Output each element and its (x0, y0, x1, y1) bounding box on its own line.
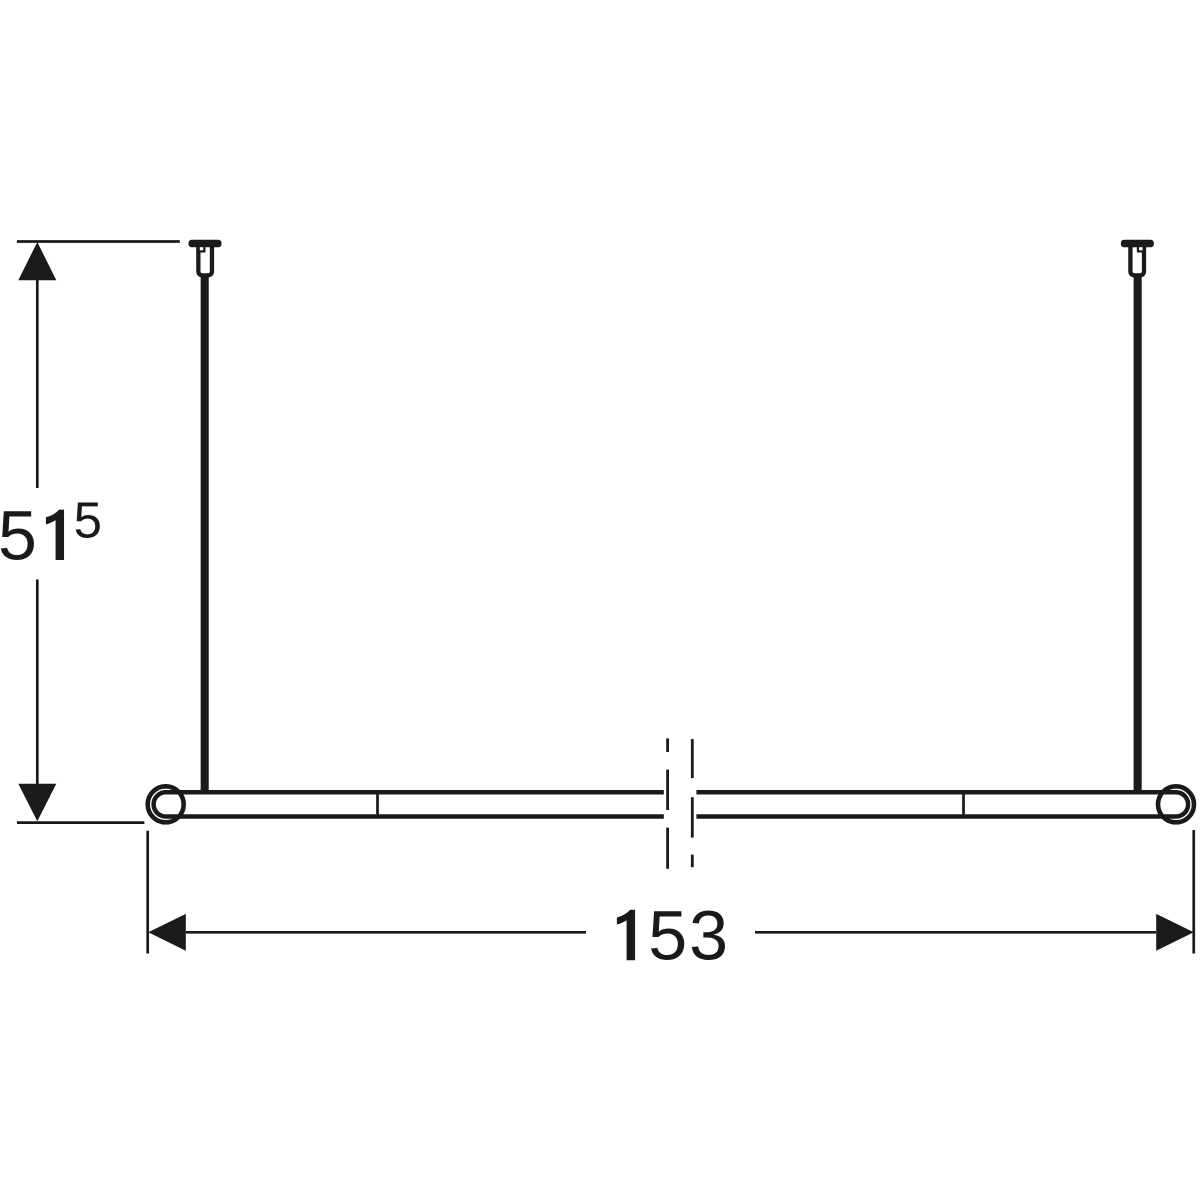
rail tube (154, 792, 1189, 816)
left ceiling mount (189, 240, 222, 793)
svg-text:5: 5 (648, 897, 687, 975)
svg-text:5: 5 (74, 492, 102, 549)
left mount bracket (198, 245, 212, 275)
dimension arrow up (51.5 top) (18, 242, 56, 280)
svg-text:3: 3 (689, 897, 728, 975)
left mount rod (201, 275, 209, 793)
break line right (691, 739, 694, 867)
right extension line (153) (1192, 830, 1195, 954)
rail bottom extension line (17, 821, 144, 824)
left mount clip detail (199, 247, 206, 253)
dimension line lower segment (36, 580, 39, 786)
ceiling reference line (17, 240, 180, 243)
break line left (666, 738, 669, 868)
rail break gap (664, 786, 697, 822)
dimension arrow right (153) (1156, 914, 1194, 951)
rail right end cap (1158, 786, 1194, 822)
label 153 digit 1 (617, 910, 635, 960)
label 51 digit 1 (46, 510, 64, 560)
dimension line 153 right part (755, 931, 1156, 934)
dimension arrow down (51.5 bottom) (18, 784, 56, 822)
svg-text:5: 5 (0, 497, 37, 575)
rail left end cap (148, 786, 184, 822)
right mount rod (1134, 275, 1142, 793)
dimension arrow left (153) (148, 914, 186, 951)
dimension line 153 left part (186, 931, 586, 934)
right ceiling mount (1121, 240, 1154, 793)
left extension line (153) (146, 831, 149, 954)
left mount plate (189, 240, 222, 248)
dimension line upper segment (36, 279, 39, 488)
right mount bracket (1130, 245, 1144, 275)
right mount clip detail (1137, 247, 1144, 253)
rail joint right (962, 792, 965, 817)
right mount plate (1121, 240, 1154, 248)
rail joint left (376, 792, 379, 817)
